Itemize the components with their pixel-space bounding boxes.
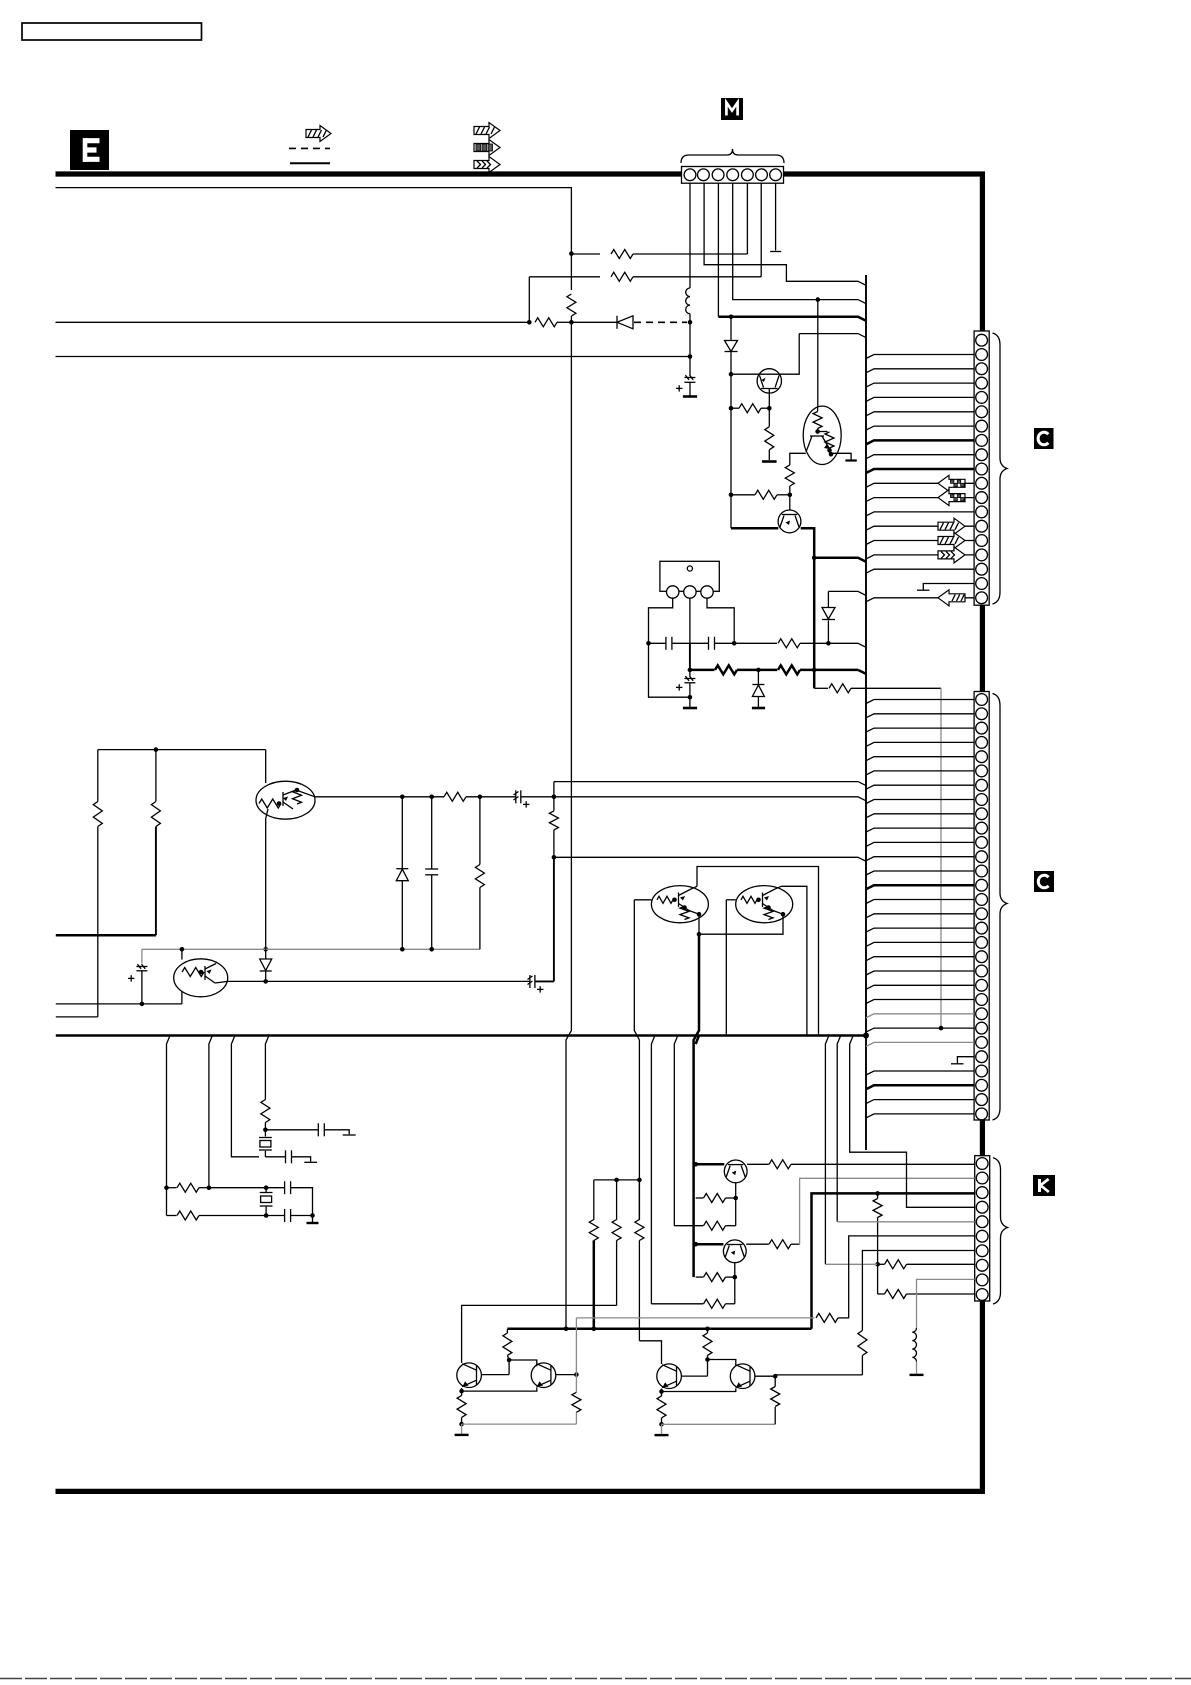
wire Q2 right corner down (bold) xyxy=(801,528,815,557)
wire C1 pin15 to bus xyxy=(866,541,974,545)
wire C2 pin11 to bus xyxy=(866,842,974,846)
node P xyxy=(732,641,737,646)
node M2 xyxy=(812,555,817,560)
wire C1 pin12 to bus xyxy=(866,498,974,502)
wire C1 pin17 to bus xyxy=(866,569,974,573)
wire node B to capacitor xyxy=(689,357,691,376)
node U xyxy=(552,795,557,800)
connector C2 pin 18 xyxy=(976,937,988,949)
connector M pin 3 xyxy=(712,169,724,181)
wire node C2h xyxy=(731,334,799,375)
bus vertical xyxy=(865,275,867,1150)
rail y750 xyxy=(98,749,266,751)
wire C2 pin3 to bus xyxy=(866,728,974,732)
diode D3 xyxy=(822,591,835,643)
node AK xyxy=(264,1213,269,1218)
connector M body xyxy=(682,167,784,184)
connector C2 pin 4 xyxy=(976,737,988,749)
connector C1 pin 14 xyxy=(976,520,988,532)
termination stub on C2 pin26 xyxy=(957,1057,974,1064)
node AZ xyxy=(705,1357,710,1362)
wire C1 pin16 to bus xyxy=(866,555,974,559)
resistor R10 xyxy=(734,639,828,648)
wire T3 base xyxy=(681,1375,707,1377)
ground G4 xyxy=(752,707,765,710)
resistor R6 below Q1 xyxy=(765,408,774,460)
legend arrow (striped) xyxy=(306,126,331,142)
connector C2 pin 23 xyxy=(976,1008,988,1020)
wire C1 pin10 to bus xyxy=(866,469,974,473)
connector C2 pin 20 xyxy=(976,965,988,977)
wire x529 vertical xyxy=(528,277,530,323)
connector K pin 10 xyxy=(976,1289,988,1301)
wire base riser xyxy=(707,1360,709,1377)
node BB xyxy=(773,1374,778,1379)
connector C2 pin 28 xyxy=(976,1079,988,1091)
wire C2 pin1 to bus xyxy=(866,700,974,704)
wire C1 pin3 to bus xyxy=(866,369,974,373)
wire node M2 to bus (bold) xyxy=(814,558,866,562)
digital transistor U5 (oval) xyxy=(726,886,792,923)
connector C2 body xyxy=(974,692,989,1121)
resistor R34 below T1 xyxy=(457,1391,466,1424)
node L xyxy=(729,493,734,498)
resistor R17 xyxy=(167,1183,209,1192)
wire C2 pin24 to bus xyxy=(866,1028,974,1032)
signal arrow (striped, right) xyxy=(938,518,965,534)
node on C2 pin24 line xyxy=(939,1026,944,1031)
node AA xyxy=(263,947,268,952)
resistor R8 xyxy=(731,490,790,499)
connector C2 pin 27 xyxy=(976,1065,988,1077)
connector K pin 1 xyxy=(976,1158,988,1170)
signal arrow (checkered, left) xyxy=(938,490,965,506)
wire drop B xyxy=(209,1036,213,1188)
legend arrow 4 (chevron) xyxy=(474,157,500,173)
connector C1 pin 13 xyxy=(976,506,988,518)
connector C2 pin 5 xyxy=(976,751,988,763)
wire X1 pin3 xyxy=(707,598,734,643)
wire C2 pin21 to bus xyxy=(866,985,974,989)
node F xyxy=(569,320,574,325)
wire C1 pin8 to bus xyxy=(866,440,974,444)
resistor R28 xyxy=(873,1193,882,1264)
wire to K pin1 xyxy=(791,1163,975,1165)
node G xyxy=(527,320,532,325)
connector C1 pin 19 xyxy=(976,592,988,604)
diode D4 xyxy=(752,670,764,708)
wire X1 pin1 xyxy=(649,598,673,643)
connector C2 pin 25 xyxy=(976,1037,988,1049)
wire C2 pin16 to bus xyxy=(866,914,974,918)
wire drop A xyxy=(167,1036,171,1216)
rail y1004 xyxy=(56,1003,182,1005)
node AP xyxy=(733,1275,738,1280)
wire Q4 emitter xyxy=(734,1263,736,1304)
transistor T2 xyxy=(531,1363,556,1388)
bold riser to K pin3 xyxy=(812,1193,975,1328)
wire node AW to T2 collector xyxy=(509,1360,537,1366)
inductor L2 xyxy=(912,1328,916,1362)
wire gray x941 down xyxy=(940,688,942,1028)
node W xyxy=(429,795,434,800)
connector C2 pin 11 xyxy=(976,837,988,849)
resistor R5 xyxy=(731,404,769,413)
wire C2 pin25 to bus xyxy=(866,1042,974,1046)
bold wire R25 to rail2 xyxy=(593,1240,596,1328)
diode D5 xyxy=(260,949,272,981)
resistor R20 xyxy=(696,1194,736,1203)
legend solid line xyxy=(290,162,330,164)
wire bold x814 down xyxy=(813,558,816,689)
section label E xyxy=(70,130,109,170)
label C (lower) xyxy=(1034,871,1054,892)
brace over connector M xyxy=(681,149,784,163)
wire node K to Q2 xyxy=(789,495,791,511)
bold rail y1329 xyxy=(507,1328,811,1331)
wire M pin7 with terminator xyxy=(770,183,781,251)
wire to K pin2 xyxy=(800,1178,975,1244)
resistor R18 xyxy=(167,1211,267,1220)
wire U5 emitter xyxy=(699,912,785,934)
connector K pin 6 xyxy=(976,1230,988,1242)
connector C1 pin 3 xyxy=(976,363,988,375)
signal arrow (chevron, right) xyxy=(938,547,965,563)
wire x554 top xyxy=(553,782,555,797)
wire node Q to bus xyxy=(828,643,866,647)
ground G5 xyxy=(307,1216,319,1224)
wire T3 emitter junction xyxy=(659,1389,664,1394)
resistor R21 xyxy=(674,1221,735,1230)
ground G8 xyxy=(655,1424,669,1435)
thick bottom border line xyxy=(56,1489,986,1494)
node AO xyxy=(693,1242,698,1247)
wire Q3 emitter xyxy=(735,1183,737,1226)
brace for C2 xyxy=(993,694,1008,1121)
thick right border line xyxy=(980,172,985,331)
legend arrow 3 (checkered) xyxy=(474,140,500,156)
wire U1 emitter right to ground xyxy=(831,453,857,460)
connector C2 pin 19 xyxy=(976,951,988,963)
wire rail y356 xyxy=(56,356,691,358)
connector K pin 9 xyxy=(976,1274,988,1286)
node V xyxy=(400,795,405,800)
connector C1 pin 8 xyxy=(976,435,988,447)
gray rail y949 xyxy=(142,948,480,950)
wire C1 pin13 to bus xyxy=(866,512,974,516)
legend dashed line xyxy=(289,147,330,149)
node AM xyxy=(693,1162,698,1167)
connector C2 pin 16 xyxy=(976,908,988,920)
wire node D down to U1 xyxy=(817,300,819,407)
wire drop x825 to pin8 node xyxy=(825,1036,829,1265)
diode D1 xyxy=(725,317,738,374)
wire U5 collector xyxy=(781,886,807,1035)
ground G1 xyxy=(683,395,697,398)
connector C1 pin 2 xyxy=(976,349,988,361)
wire K pin9 xyxy=(917,1279,975,1328)
inductor L1 xyxy=(686,288,690,314)
wire x554 bold down xyxy=(553,857,555,981)
wire C2 pin23 to bus xyxy=(866,1014,974,1018)
wire C1 pin7 to bus xyxy=(866,426,974,430)
termination stub on C1 pin18 xyxy=(923,584,974,590)
ground G7 xyxy=(455,1424,469,1435)
wire C1 pin14 to bus xyxy=(866,526,974,530)
signal arrow (striped, right) xyxy=(938,533,965,549)
node AL xyxy=(310,1213,315,1218)
connector C1 pin 16 xyxy=(976,549,988,561)
resistor R15 xyxy=(475,797,484,950)
capacitor C2 xyxy=(649,637,690,650)
bold rail y670 xyxy=(690,665,866,674)
node AN xyxy=(733,1196,738,1201)
node N xyxy=(812,668,817,673)
gray emitter rail y1424b xyxy=(662,1423,776,1425)
wire C2 pin12 to bus xyxy=(866,857,974,861)
wire C2 pin9 to bus xyxy=(866,814,974,818)
wire Q2 left (bold) xyxy=(731,527,778,530)
wire M pin1 down xyxy=(689,183,691,288)
connector K pin 3 xyxy=(976,1187,988,1199)
wire x98 to left edge xyxy=(56,1016,98,1018)
label C (upper) xyxy=(1034,428,1054,449)
wire R26 to T1 base feed xyxy=(462,1305,617,1363)
connector C1 pin 18 xyxy=(976,578,988,590)
resistor R30 to K pin10 xyxy=(878,1264,975,1298)
connector M label xyxy=(721,98,743,120)
digital transistor U1 (dual element oval) xyxy=(803,406,841,464)
gray resistor rail y1318 xyxy=(576,1317,814,1319)
resistor R31 on pin7 drop xyxy=(858,1331,867,1375)
connector C1 pin 10 xyxy=(976,463,988,475)
resistor R1 xyxy=(571,250,747,259)
connector K pin 2 xyxy=(976,1172,988,1184)
connector C2 pin 17 xyxy=(976,922,988,934)
resistor R24 xyxy=(651,1299,734,1308)
node AW xyxy=(507,1358,512,1363)
connector C2 pin 30 xyxy=(976,1108,988,1120)
wire D3 to bus xyxy=(828,591,866,595)
node D on pin4 line xyxy=(816,297,821,302)
connector C1 pin 11 xyxy=(976,477,988,489)
title box (empty) xyxy=(22,23,202,40)
connector C2 pin 15 xyxy=(976,894,988,906)
connector C1 body xyxy=(974,331,989,605)
dashed wire D2 to node A xyxy=(634,321,687,323)
wire M pin5 down xyxy=(746,183,748,254)
bottom page rule xyxy=(0,1678,1191,1680)
transistor Q3 xyxy=(696,1160,747,1183)
node AJ xyxy=(264,1185,269,1190)
signal arrow (checkered, left) xyxy=(938,475,965,491)
ground G2 xyxy=(762,460,777,463)
capacitor C11 xyxy=(266,1181,312,1215)
wire U2 emitter down xyxy=(265,819,267,950)
wire drop x849 to K pin4 xyxy=(850,1036,975,1208)
node AV xyxy=(875,1262,880,1267)
legend arrow 2 (striped) xyxy=(474,123,500,139)
wire C2 pin27 to bus xyxy=(866,1071,974,1075)
connector C2 pin 22 xyxy=(976,994,988,1006)
connector C2 pin 8 xyxy=(976,794,988,806)
resistor R26 xyxy=(612,1180,621,1306)
wire L2 to ground xyxy=(916,1362,918,1375)
node AT xyxy=(592,1327,597,1332)
connector C2 pin 3 xyxy=(976,722,988,734)
polarized capacitor C1 xyxy=(676,375,695,391)
transistor Q4 xyxy=(696,1240,746,1263)
connector C1 pin 7 xyxy=(976,420,988,432)
bold rail y1035 xyxy=(56,1034,866,1037)
resistor R37 below T3 xyxy=(657,1392,666,1425)
node AY xyxy=(459,1422,464,1427)
digital transistor U4 (oval) xyxy=(634,886,708,923)
connector C2 pin 12 xyxy=(976,851,988,863)
connector M pin 1 xyxy=(684,169,696,181)
wire drop D xyxy=(265,1036,269,1100)
wire C2 pin2 to bus xyxy=(866,714,974,718)
wire K pin7 xyxy=(862,1251,974,1331)
resistor R27 xyxy=(635,1180,644,1241)
transistor T1 xyxy=(457,1363,482,1388)
wire C2 pin6 to bus xyxy=(866,771,974,775)
wire C2 pin18 to bus xyxy=(866,942,974,946)
wire K pin6 xyxy=(849,1236,975,1318)
wire C2 pin13 to bus xyxy=(866,871,974,875)
wire drop C xyxy=(231,1036,259,1157)
node C on pin3 line xyxy=(729,315,734,320)
connector C2 pin 1 xyxy=(976,694,988,706)
connector C2 pin 6 xyxy=(976,765,988,777)
resistor R36 xyxy=(703,1329,712,1360)
resistor R35 xyxy=(572,1375,581,1425)
connector C1 pin 15 xyxy=(976,535,988,547)
wire drop x674 xyxy=(674,1036,678,1226)
node A (pin1/diode/resistor junction) xyxy=(688,320,693,325)
connector M pin 6 xyxy=(756,169,768,181)
wire U1 left to R7 xyxy=(790,453,806,465)
wire C2 pin15 to bus xyxy=(866,900,974,904)
wire to U3 base xyxy=(181,992,183,1004)
wire C1 to ground xyxy=(689,382,691,396)
node AG xyxy=(263,1128,268,1133)
resonator X1 xyxy=(660,561,719,598)
wire U5 base down xyxy=(725,900,727,1036)
wire emitter link T3-T4 xyxy=(662,1388,736,1391)
node AB xyxy=(263,979,268,984)
node AS xyxy=(564,1327,569,1332)
wire C1 pin2 to bus xyxy=(866,355,974,359)
resistor R14 on x156 xyxy=(151,750,160,936)
crystal X2 xyxy=(259,1130,272,1157)
connector C2 pin 2 xyxy=(976,708,988,720)
resistor R22 (Q4 out) xyxy=(746,1240,799,1249)
node E (R1 tap) xyxy=(569,251,574,256)
connector C1 pin 9 xyxy=(976,449,988,461)
wire X1 pin2 (bold below) xyxy=(689,598,691,643)
wire x731 down xyxy=(730,374,732,528)
connector K body xyxy=(975,1156,990,1301)
resistor R3 xyxy=(567,294,576,316)
wire U4 collector up/over/down xyxy=(697,867,819,1036)
wire vertical x571 (with resistor) xyxy=(570,254,572,290)
node X xyxy=(478,795,483,800)
wire T1 emitter junction xyxy=(459,1388,464,1393)
wire C1 pin19 to bus xyxy=(866,598,974,602)
node Z xyxy=(154,747,159,752)
transistor T3 xyxy=(657,1364,682,1389)
capacitor C3 xyxy=(690,637,734,650)
bold drop x695 xyxy=(696,1036,699,1045)
polarized capacitor C8 xyxy=(128,949,147,1004)
transistor Q1 xyxy=(757,369,781,409)
capacitor C10 xyxy=(265,1150,317,1163)
connector C1 pin 4 xyxy=(976,377,988,389)
node BC xyxy=(659,1422,664,1427)
resistor R25 xyxy=(589,1180,598,1241)
node O xyxy=(646,641,651,646)
wire drop x651 xyxy=(651,1036,655,1304)
digital transistor U3 (oval) xyxy=(174,947,228,997)
wire M pin2 staircase to bus xyxy=(704,183,866,285)
wire U4 base down xyxy=(634,900,639,1220)
node I xyxy=(767,406,772,411)
connector C2 pin 7 xyxy=(976,779,988,791)
wire C2 pin14 to bus xyxy=(866,885,974,889)
digital transistor U2 (oval) xyxy=(256,750,315,820)
connector K pin 8 xyxy=(976,1259,988,1271)
connector C1 pin 12 xyxy=(976,492,988,504)
node AI xyxy=(207,1185,212,1190)
bus junction node xyxy=(863,1033,869,1039)
diode D2 (left pointing) xyxy=(571,316,633,329)
resistor R2 xyxy=(529,272,761,281)
wire T4 base to node BB xyxy=(755,1375,775,1377)
wire node AZ to T4 collector xyxy=(708,1360,736,1367)
signal arrow (striped, left) xyxy=(938,590,965,606)
wire T1 base to node xyxy=(481,1374,509,1376)
wire C1 pin5 to bus xyxy=(866,397,974,401)
resistor R38 xyxy=(771,1376,780,1424)
node S xyxy=(756,668,761,673)
ground G3 xyxy=(683,697,697,708)
wire pin3 to bus (bold) xyxy=(718,317,866,321)
wire C2 pin22 to bus xyxy=(866,1000,974,1004)
rail y797 to bus xyxy=(554,797,866,801)
connector C2 pin 21 xyxy=(976,979,988,991)
wire C1 pin4 to bus xyxy=(866,383,974,387)
wire bank top xyxy=(594,1179,640,1181)
resistor R19 (Q3 collector out) xyxy=(747,1160,791,1169)
wire to bus y333 xyxy=(799,334,866,338)
node AU xyxy=(875,1191,880,1196)
resistor R7 xyxy=(785,465,794,495)
node AX xyxy=(574,1372,579,1377)
resistor R16 xyxy=(261,1100,270,1130)
wire C2 pin17 to bus xyxy=(866,928,974,932)
node Y xyxy=(552,855,557,860)
wire C1 pin6 to bus xyxy=(866,412,974,416)
transistor T4 xyxy=(730,1364,755,1389)
wire C2 pin19 to bus xyxy=(866,957,974,961)
connector C1 pin 17 xyxy=(976,563,988,575)
wire C2 pin29 to bus xyxy=(866,1100,974,1104)
brace for C1 xyxy=(993,333,1008,604)
wire drop x837 to K pin5 xyxy=(837,1036,841,1222)
wire C2 pin20 to bus xyxy=(866,971,974,975)
gray riser x576 xyxy=(575,1318,577,1375)
